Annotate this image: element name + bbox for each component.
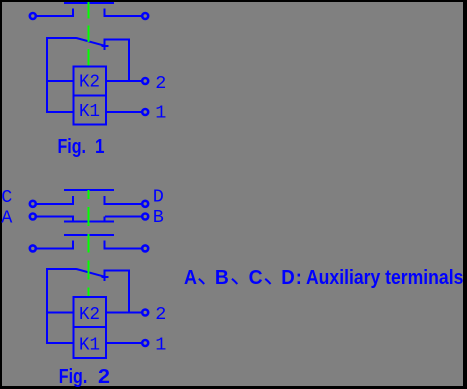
terminal circle top-right [142, 13, 148, 19]
wire right from top contact [105, 15, 141, 17]
terminal circle A [30, 214, 36, 220]
svg-text:D: D [281, 267, 295, 289]
relay coil K2 box fig2 [74, 297, 107, 327]
wire K2 to terminal 2 [106, 80, 142, 82]
contact A-B right post [104, 217, 106, 222]
wire C [37, 203, 75, 205]
mechanical link (green dashed) fig2 [88, 190, 90, 296]
svg-text:A: A [184, 267, 197, 289]
svg-text:K2: K2 [79, 72, 100, 93]
fixed contact left post [72, 9, 74, 18]
wire branch to K1 fig2 [46, 342, 73, 344]
svg-text:Fig.: Fig. [59, 366, 88, 388]
terminal circle top-left [30, 13, 36, 19]
terminal circle 2 fig2 [142, 310, 148, 316]
ideographic comma 3 [265, 279, 270, 284]
wire branch to K2 fig2 [46, 312, 73, 314]
wire left to top contact [37, 15, 75, 17]
terminal circle C [30, 201, 36, 207]
mechanical link (green dashed) fig1 [88, 2, 90, 65]
terminal circle 2 [142, 78, 148, 84]
wire A [37, 216, 75, 218]
svg-text:C: C [249, 267, 263, 289]
terminal circle 1 [142, 109, 148, 115]
svg-text:2: 2 [155, 73, 166, 94]
svg-text:K2: K2 [79, 304, 100, 325]
contact A-B left post [72, 217, 74, 222]
svg-text:K1: K1 [79, 101, 100, 122]
left bus vertical wire fig2 [46, 268, 48, 344]
svg-text:1: 1 [95, 136, 105, 158]
contact 3 bridge bar [64, 234, 114, 236]
svg-text:B: B [215, 267, 229, 289]
wire contact3 right [105, 247, 141, 249]
fixed contact right post [104, 9, 106, 18]
svg-text:2: 2 [98, 366, 110, 388]
relay coil K2 box [74, 67, 107, 96]
svg-text:Fig.: Fig. [58, 136, 87, 158]
svg-text:K1: K1 [79, 335, 100, 356]
contact C-D right post [104, 196, 106, 205]
relay coil K1 box [74, 96, 107, 125]
fixed NO contact bracket fig2 [105, 271, 130, 313]
contact bridge bar (fig1 top contact) [64, 2, 114, 4]
terminal circle contact3 left [30, 245, 36, 251]
moving contact tick fig2 [102, 276, 109, 278]
terminal circle contact3 right [142, 245, 148, 251]
relay coil K1 box fig2 [74, 327, 107, 358]
wire branch to K1 [46, 111, 73, 113]
terminal circle B [142, 214, 148, 220]
contact 3 right post [104, 241, 106, 250]
wire D [105, 203, 141, 205]
svg-text:B: B [153, 207, 164, 228]
svg-text:1: 1 [155, 335, 166, 356]
terminal circle 1 fig2 [142, 340, 148, 346]
svg-text:1: 1 [155, 103, 166, 124]
svg-text:C: C [1, 187, 12, 208]
wire K2 to terminal 2 fig2 [106, 312, 142, 314]
contact 3 left post [72, 241, 74, 250]
fixed NO contact bracket [105, 40, 130, 81]
wire K1 to terminal 1 [106, 111, 142, 113]
svg-text:2: 2 [155, 304, 166, 325]
changeover blade diagonal fig2 [76, 269, 104, 277]
contact A-B bridge bar [64, 221, 114, 223]
changeover blade pivot wire [46, 37, 76, 39]
terminal circle D [142, 201, 148, 207]
wire B [105, 216, 141, 218]
ideographic comma 2 [232, 279, 237, 284]
ideographic comma 1 [199, 279, 204, 284]
contact C-D left post [72, 196, 74, 205]
svg-text:D: D [153, 186, 164, 207]
wire contact3 left [37, 247, 75, 249]
moving contact tick [102, 45, 109, 47]
changeover blade pivot wire fig2 [46, 268, 76, 270]
svg-text:: Auxiliary terminals: : Auxiliary terminals [296, 267, 464, 289]
svg-text:A: A [1, 207, 13, 228]
wire K1 to terminal 1 fig2 [106, 342, 142, 344]
left bus vertical wire [46, 37, 48, 113]
contact C-D bridge bar [64, 189, 114, 191]
changeover blade (diagonal) [76, 38, 104, 46]
wire branch to K2 [46, 80, 73, 82]
